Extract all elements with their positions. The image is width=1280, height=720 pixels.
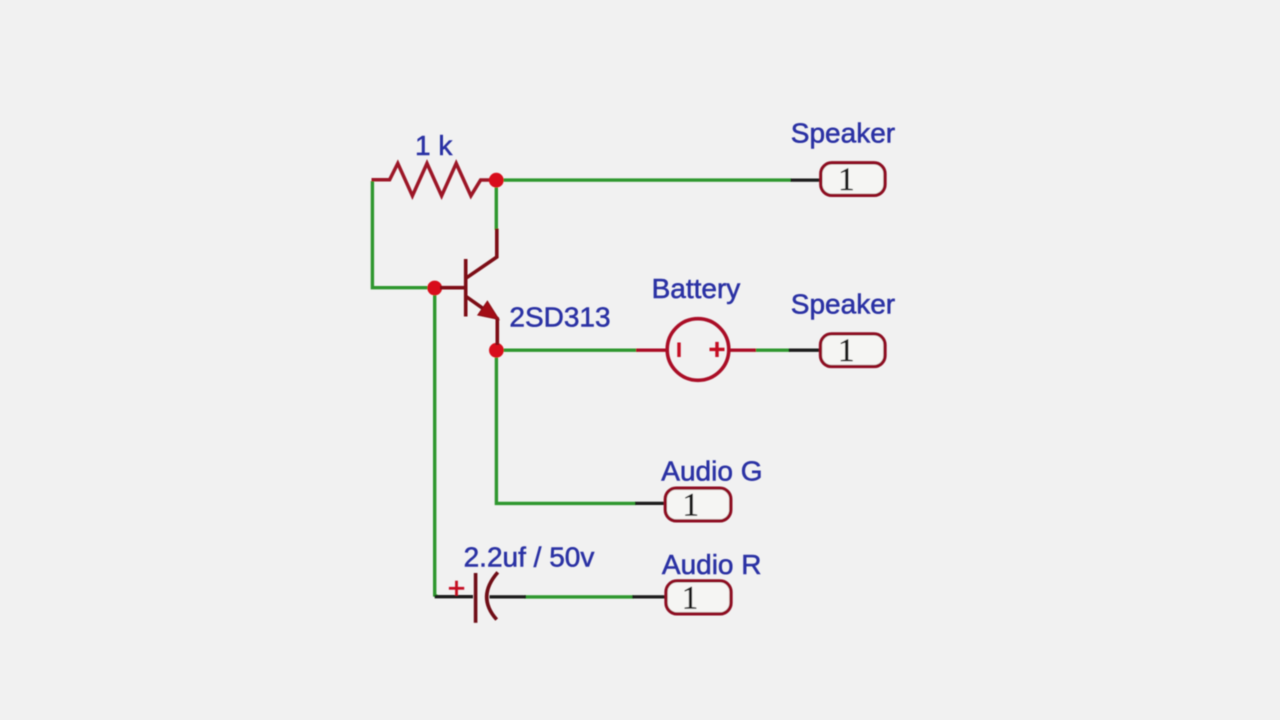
wire: base node down to capacitor corner: [435, 294, 438, 597]
wire: top horizontal from collector node to Speaker lead: [502, 178, 792, 181]
port Speaker 1 (top) lead: [791, 178, 823, 181]
node: collector junction: [489, 173, 504, 188]
transistor emitter arrow: [478, 301, 499, 319]
node: emitter junction: [489, 343, 504, 358]
wire: collector node down to transistor collector: [495, 186, 498, 230]
svg-text:1: 1: [682, 580, 699, 616]
capacitor C1 left lead: [435, 595, 473, 598]
wire: capacitor to Audio R lead: [524, 595, 634, 598]
transistor Q1 2SD313: [440, 229, 497, 346]
node: base junction: [427, 281, 442, 296]
resistor R1: [372, 163, 491, 195]
svg-text:Speaker: Speaker: [791, 289, 895, 320]
svg-text:1: 1: [682, 488, 699, 524]
svg-text:2.2uf / 50v: 2.2uf / 50v: [464, 542, 595, 573]
capacitor C1 plates: [476, 572, 498, 623]
svg-text:1: 1: [838, 162, 855, 198]
battery B1: [636, 319, 756, 381]
svg-text:1 k: 1 k: [415, 130, 453, 161]
svg-text:Battery: Battery: [652, 273, 741, 304]
wire: left vertical from resistor to base node: [372, 181, 429, 288]
capacitor C1 plus mark: [449, 581, 464, 596]
svg-text:Audio G: Audio G: [661, 455, 762, 486]
wire: emitter node down and right to Audio G lead: [496, 356, 636, 503]
capacitor C1 right lead: [490, 595, 527, 598]
port Audio G lead: [635, 502, 666, 505]
wire: emitter node right to battery: [502, 349, 637, 352]
port Audio G: [665, 488, 731, 521]
wire: battery to Speaker 2 lead: [755, 349, 790, 352]
svg-text:Speaker: Speaker: [791, 117, 895, 148]
port Speaker 2 (middle): [821, 334, 886, 367]
svg-text:Audio R: Audio R: [662, 549, 762, 580]
port Audio R lead: [632, 595, 667, 598]
port Audio R: [666, 581, 731, 614]
svg-text:1: 1: [838, 333, 855, 369]
port Speaker 1 (top): [821, 163, 885, 196]
svg-text:2SD313: 2SD313: [509, 301, 610, 332]
port Speaker 2 (middle) lead: [789, 349, 822, 352]
